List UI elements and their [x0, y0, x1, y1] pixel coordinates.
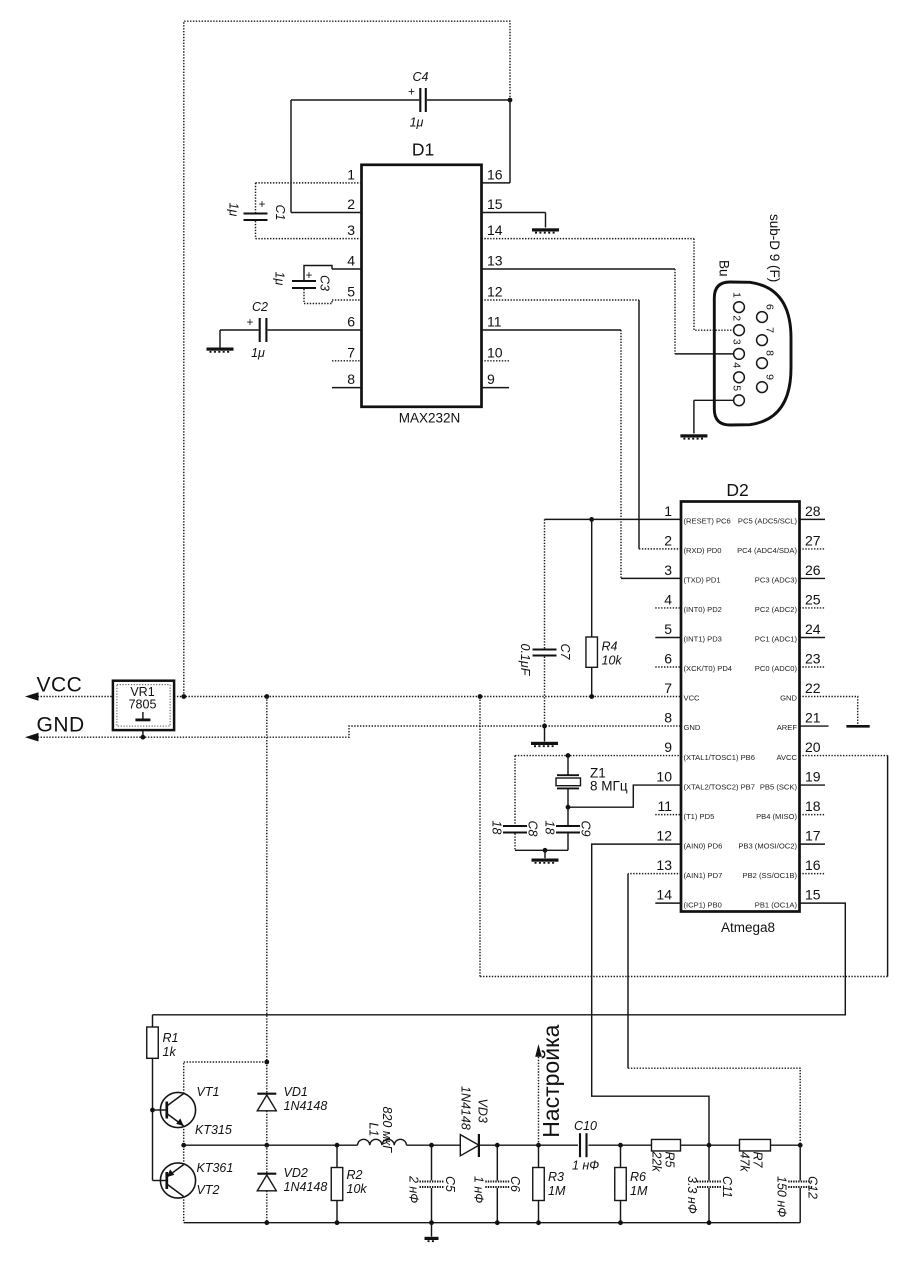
ground (C2) — [207, 348, 234, 352]
svg-text:PC4 (ADC4/SDA): PC4 (ADC4/SDA) — [737, 546, 797, 555]
resistor R1 — [152, 1015, 154, 1027]
svg-text:23: 23 — [805, 651, 821, 667]
svg-text:Настройка: Настройка — [538, 1024, 564, 1137]
wire D2 pin1 RESET net — [545, 518, 682, 520]
svg-text:1N4148: 1N4148 — [459, 1086, 473, 1130]
wire D1 pin15 to ground — [545, 213, 547, 228]
svg-text:10k: 10k — [602, 654, 623, 668]
svg-text:PC2 (ADC2): PC2 (ADC2) — [755, 605, 798, 614]
svg-text:13: 13 — [656, 857, 672, 873]
svg-text:sub-D 9 (F): sub-D 9 (F) — [767, 214, 782, 282]
svg-text:VT1: VT1 — [197, 1085, 220, 1099]
node Z1 top — [566, 753, 571, 758]
svg-text:1M: 1M — [630, 1184, 648, 1198]
svg-text:C2: C2 — [252, 300, 268, 314]
svg-text:C8: C8 — [526, 821, 540, 837]
svg-text:26: 26 — [805, 562, 821, 578]
svg-text:14: 14 — [487, 222, 503, 238]
svg-text:7: 7 — [764, 327, 776, 333]
capacitor C5 — [429, 1143, 434, 1148]
svg-text:VD1: VD1 — [284, 1085, 308, 1099]
DB9 pin circles — [734, 302, 745, 313]
node C8-C9 ground — [543, 848, 548, 853]
wire C4 to D1 pin 2 — [290, 100, 292, 213]
svg-text:(ICP1) PB0: (ICP1) PB0 — [684, 900, 722, 909]
svg-text:1μ: 1μ — [410, 116, 424, 130]
svg-text:3: 3 — [664, 562, 672, 578]
diode VD3 1N4148 — [460, 1135, 479, 1156]
wire D1 pin13 to DB9 pin3 — [674, 269, 676, 354]
svg-text:19: 19 — [805, 769, 821, 785]
node VD1 - mid rail — [264, 1143, 269, 1148]
svg-text:Bu: Bu — [717, 260, 732, 277]
GND rail — [29, 726, 681, 737]
svg-text:PB1 (OC1A): PB1 (OC1A) — [755, 900, 798, 909]
svg-text:8 МГц: 8 МГц — [590, 779, 628, 794]
svg-text:(XTAL1/TOSC1) PB6: (XTAL1/TOSC1) PB6 — [684, 753, 755, 762]
ground (C8/C9) — [532, 859, 559, 863]
svg-text:27: 27 — [805, 532, 821, 548]
wire C8/C9 commons — [515, 849, 568, 851]
svg-text:13: 13 — [487, 253, 503, 269]
mid rail wire — [184, 1144, 358, 1146]
svg-text:KT315: KT315 — [195, 1123, 232, 1137]
svg-text:2: 2 — [664, 532, 672, 548]
inductor L1 — [358, 1139, 407, 1145]
svg-text:C11: C11 — [720, 1176, 734, 1198]
svg-text:PC0 (ADC0): PC0 (ADC0) — [755, 664, 798, 673]
svg-text:AVCC: AVCC — [776, 753, 797, 762]
node C7-GND — [542, 724, 547, 729]
svg-text:(RXD) PD0: (RXD) PD0 — [684, 546, 722, 555]
capacitor C6 — [495, 1143, 500, 1148]
node tuning output — [536, 1143, 541, 1148]
svg-text:GND: GND — [780, 694, 797, 703]
svg-text:C9: C9 — [579, 821, 593, 837]
svg-text:D1: D1 — [412, 140, 434, 160]
svg-text:MAX232N: MAX232N — [399, 411, 461, 426]
svg-text:1μ: 1μ — [251, 346, 265, 360]
transistor VT1 KT315 (NPN) — [160, 1092, 195, 1127]
svg-text:1 нФ: 1 нФ — [572, 1159, 599, 1173]
svg-text:10: 10 — [487, 344, 503, 360]
node C12 — [798, 1143, 803, 1148]
ground bar (pin22) — [846, 725, 869, 728]
VCC rail — [29, 696, 681, 698]
svg-text:+: + — [306, 270, 313, 282]
node Z1 bottom — [566, 805, 571, 810]
capacitor C2 — [259, 318, 261, 342]
svg-text:1 нФ: 1 нФ — [472, 1176, 486, 1203]
svg-text:9: 9 — [664, 739, 672, 755]
svg-text:(RESET) PC6: (RESET) PC6 — [684, 517, 731, 526]
IC D2 Atmega8 body — [681, 502, 800, 912]
svg-text:(INT1) PD3: (INT1) PD3 — [684, 635, 722, 644]
resistor R7 — [740, 1139, 771, 1151]
svg-text:16: 16 — [805, 857, 821, 873]
svg-text:VD2: VD2 — [284, 1166, 308, 1180]
svg-text:7: 7 — [347, 344, 355, 360]
svg-text:R3: R3 — [548, 1170, 564, 1184]
svg-text:18: 18 — [805, 798, 821, 814]
resistor R6 — [618, 1143, 623, 1148]
crystal Z1 — [567, 756, 569, 776]
svg-text:47k: 47k — [738, 1152, 752, 1173]
node AVCC net - VCC — [478, 694, 483, 699]
svg-text:7: 7 — [664, 680, 672, 696]
svg-text:11: 11 — [657, 798, 672, 814]
svg-text:R2: R2 — [347, 1168, 363, 1182]
arrow / net label Nastroyka — [538, 1056, 540, 1145]
svg-text:10: 10 — [656, 769, 672, 785]
wire D2 pin12 to C11 node — [592, 844, 709, 1145]
svg-text:GND: GND — [37, 714, 85, 737]
node VD1 net - VCC — [264, 694, 269, 699]
D1 pin stubs and numbers — [256, 182, 362, 184]
capacitor C9 — [567, 807, 569, 825]
wire C2 to ground — [220, 329, 259, 331]
capacitor C8 — [514, 756, 516, 825]
svg-text:(XCK/T0) PD4: (XCK/T0) PD4 — [684, 664, 733, 673]
wire DB9 pin5 to ground — [694, 399, 734, 401]
svg-text:0.1μF: 0.1μF — [518, 644, 532, 677]
wire VR1 to GND rail — [142, 730, 144, 737]
svg-text:8: 8 — [764, 350, 776, 356]
svg-text:20: 20 — [805, 739, 821, 755]
node R4-VCC — [589, 694, 594, 699]
IC D1 MAX232N body — [362, 165, 482, 407]
wire D2 pin13 to C12 node — [628, 873, 681, 875]
capacitor C10 — [579, 1133, 581, 1157]
capacitor C1 — [255, 183, 257, 213]
svg-text:3: 3 — [731, 339, 743, 345]
svg-text:VCC: VCC — [37, 674, 83, 697]
wire D2 pin10 XTAL2 jog — [568, 785, 681, 807]
svg-text:12: 12 — [656, 828, 672, 844]
svg-text:C1: C1 — [273, 205, 287, 221]
svg-text:6: 6 — [764, 304, 776, 310]
svg-text:28: 28 — [805, 503, 821, 519]
node C11 — [707, 1143, 712, 1148]
capacitor C4 — [291, 99, 419, 101]
wire D2 pin21 AREF stub — [800, 725, 829, 727]
svg-text:VCC: VCC — [684, 694, 701, 703]
diode VD1 1N4148 — [266, 1062, 268, 1094]
svg-text:+: + — [408, 87, 415, 99]
diode VD2 1N4148 — [266, 1145, 268, 1173]
wire frame to D1 pin 16 — [509, 100, 511, 183]
wire D1 pin14 to DB9 pin2 — [694, 239, 734, 331]
resistor R2 — [335, 1143, 340, 1148]
svg-text:1N4148: 1N4148 — [284, 1180, 328, 1194]
svg-text:PC5 (ADC5/SCL): PC5 (ADC5/SCL) — [738, 517, 798, 526]
svg-text:10k: 10k — [347, 1182, 368, 1196]
svg-text:GND: GND — [684, 723, 701, 732]
wire D1 pin11 to D2 pin3 (TXD) — [620, 330, 622, 578]
svg-text:820 мкГ: 820 мкГ — [380, 1107, 394, 1154]
svg-text:4: 4 — [347, 253, 355, 269]
svg-text:9: 9 — [764, 374, 776, 380]
svg-text:1M: 1M — [548, 1184, 566, 1198]
node VD2 - bottom rail — [264, 1220, 269, 1225]
svg-text:3: 3 — [347, 222, 355, 238]
svg-text:L1: L1 — [367, 1123, 381, 1137]
svg-text:(AIN0) PD6: (AIN0) PD6 — [684, 841, 723, 850]
node emitters - mid rail — [181, 1143, 186, 1148]
frame / dotted net border top-left — [184, 21, 510, 696]
svg-text:PC3 (ADC3): PC3 (ADC3) — [755, 576, 798, 585]
svg-text:1: 1 — [664, 503, 672, 519]
svg-text:C4: C4 — [413, 70, 429, 84]
wire D1 pin12 to D2 pin2 (RXD) — [638, 300, 640, 549]
svg-text:7805: 7805 — [129, 698, 157, 712]
svg-text:15: 15 — [805, 887, 821, 903]
svg-text:18: 18 — [490, 821, 504, 835]
svg-text:15: 15 — [487, 196, 503, 212]
bottom rail wire — [184, 1222, 801, 1224]
svg-text:4: 4 — [731, 362, 743, 368]
svg-text:(XTAL2/TOSC2) PB7: (XTAL2/TOSC2) PB7 — [684, 782, 755, 791]
D2 unconnected stubs — [655, 607, 681, 609]
transistor VT2 KT361 (PNP) — [160, 1163, 195, 1198]
resistor R4 — [591, 519, 593, 637]
svg-text:PB3 (MOSI/OC2): PB3 (MOSI/OC2) — [738, 841, 797, 850]
svg-text:R7: R7 — [751, 1152, 765, 1169]
node frame-VCC — [181, 694, 186, 699]
svg-text:PC1 (ADC1): PC1 (ADC1) — [755, 635, 798, 644]
svg-text:PB2 (SS/OC1B): PB2 (SS/OC1B) — [743, 871, 798, 880]
capacitor C3 — [304, 266, 332, 281]
ground (bottom rail) — [431, 1223, 433, 1237]
voltage regulator VR1 7805 — [113, 681, 174, 730]
svg-text:8: 8 — [347, 371, 355, 387]
capacitor C12 — [799, 1145, 801, 1180]
svg-text:5: 5 — [347, 284, 355, 300]
svg-text:6: 6 — [664, 651, 672, 667]
wire collector VT1 to VD1 top — [184, 1061, 267, 1063]
svg-text:VT2: VT2 — [197, 1183, 220, 1197]
svg-text:1μ: 1μ — [273, 272, 287, 286]
connector Bu sub-D 9 (F) outline — [714, 282, 791, 425]
svg-text:11: 11 — [487, 314, 502, 330]
svg-text:2 нФ: 2 нФ — [407, 1175, 421, 1203]
svg-text:3.3 нФ: 3.3 нФ — [685, 1176, 699, 1214]
svg-text:21: 21 — [805, 710, 821, 726]
resistor R5 — [652, 1139, 681, 1151]
ground (D1 pin15) — [532, 228, 559, 232]
svg-text:R4: R4 — [602, 640, 618, 654]
svg-text:R1: R1 — [163, 1031, 179, 1045]
svg-text:KT361: KT361 — [197, 1161, 234, 1175]
svg-text:C3: C3 — [318, 275, 332, 291]
wire R1 to bases — [152, 1058, 154, 1180]
node: C4 / pin16 / frame junction — [508, 98, 513, 103]
svg-text:R6: R6 — [630, 1170, 646, 1184]
svg-text:PB5 (SCK): PB5 (SCK) — [760, 782, 798, 791]
svg-text:22: 22 — [805, 680, 821, 696]
wire D2 pin15 PB1 to R1 top — [153, 903, 846, 1015]
svg-text:22k: 22k — [650, 1151, 664, 1173]
svg-text:5: 5 — [731, 385, 743, 391]
ground (C7 net) — [544, 726, 546, 742]
svg-text:25: 25 — [805, 591, 821, 607]
svg-text:14: 14 — [656, 887, 672, 903]
svg-text:D2: D2 — [726, 480, 748, 500]
svg-text:5: 5 — [664, 621, 672, 637]
svg-text:2: 2 — [347, 196, 355, 212]
svg-text:+: + — [259, 199, 266, 211]
svg-text:1: 1 — [731, 292, 743, 298]
svg-text:PB4 (MISO): PB4 (MISO) — [756, 812, 797, 821]
node R4-RESET — [589, 517, 594, 522]
node base junction — [150, 1108, 155, 1113]
svg-text:8: 8 — [664, 710, 672, 726]
svg-text:(T1) PD5: (T1) PD5 — [684, 812, 715, 821]
wire D2 pin20 AVCC to VCC — [800, 755, 888, 757]
svg-text:12: 12 — [487, 284, 503, 300]
svg-text:Atmega8: Atmega8 — [721, 920, 775, 935]
svg-text:16: 16 — [487, 166, 503, 182]
svg-text:18: 18 — [543, 821, 557, 835]
svg-text:150 нФ: 150 нФ — [775, 1176, 789, 1217]
svg-text:C7: C7 — [558, 644, 572, 661]
svg-text:4: 4 — [664, 591, 672, 607]
svg-text:C6: C6 — [508, 1176, 522, 1192]
wire D2 pin22 GND to ground — [800, 697, 858, 725]
svg-text:C5: C5 — [443, 1176, 457, 1192]
capacitor C7 — [544, 519, 546, 648]
svg-text:R5: R5 — [663, 1152, 677, 1168]
svg-text:C10: C10 — [574, 1119, 597, 1133]
svg-text:1μ: 1μ — [227, 203, 241, 217]
svg-text:24: 24 — [805, 621, 821, 637]
ground (DB9 pin5) — [680, 434, 707, 438]
wire D2 pin9 XTAL1 net — [515, 755, 681, 757]
node VD1 top — [264, 1060, 269, 1065]
svg-text:+: + — [247, 317, 254, 329]
svg-text:6: 6 — [347, 314, 355, 330]
svg-text:AREF: AREF — [777, 723, 798, 732]
svg-text:VD3: VD3 — [476, 1099, 490, 1123]
svg-text:(AIN1) PD7: (AIN1) PD7 — [684, 871, 723, 880]
svg-text:17: 17 — [805, 828, 821, 844]
svg-text:1: 1 — [347, 166, 355, 182]
svg-text:9: 9 — [487, 371, 495, 387]
svg-text:C12: C12 — [806, 1176, 820, 1199]
svg-text:(INT0) PD2: (INT0) PD2 — [684, 605, 722, 614]
svg-text:1N4148: 1N4148 — [284, 1099, 328, 1113]
svg-text:(TXD) PD1: (TXD) PD1 — [684, 576, 721, 585]
svg-text:2: 2 — [731, 315, 743, 321]
capacitor C11 — [708, 1145, 710, 1180]
svg-text:1k: 1k — [163, 1045, 177, 1059]
wire VD1 net vertical from VCC — [266, 697, 268, 1063]
resistor R3 — [538, 1145, 540, 1167]
